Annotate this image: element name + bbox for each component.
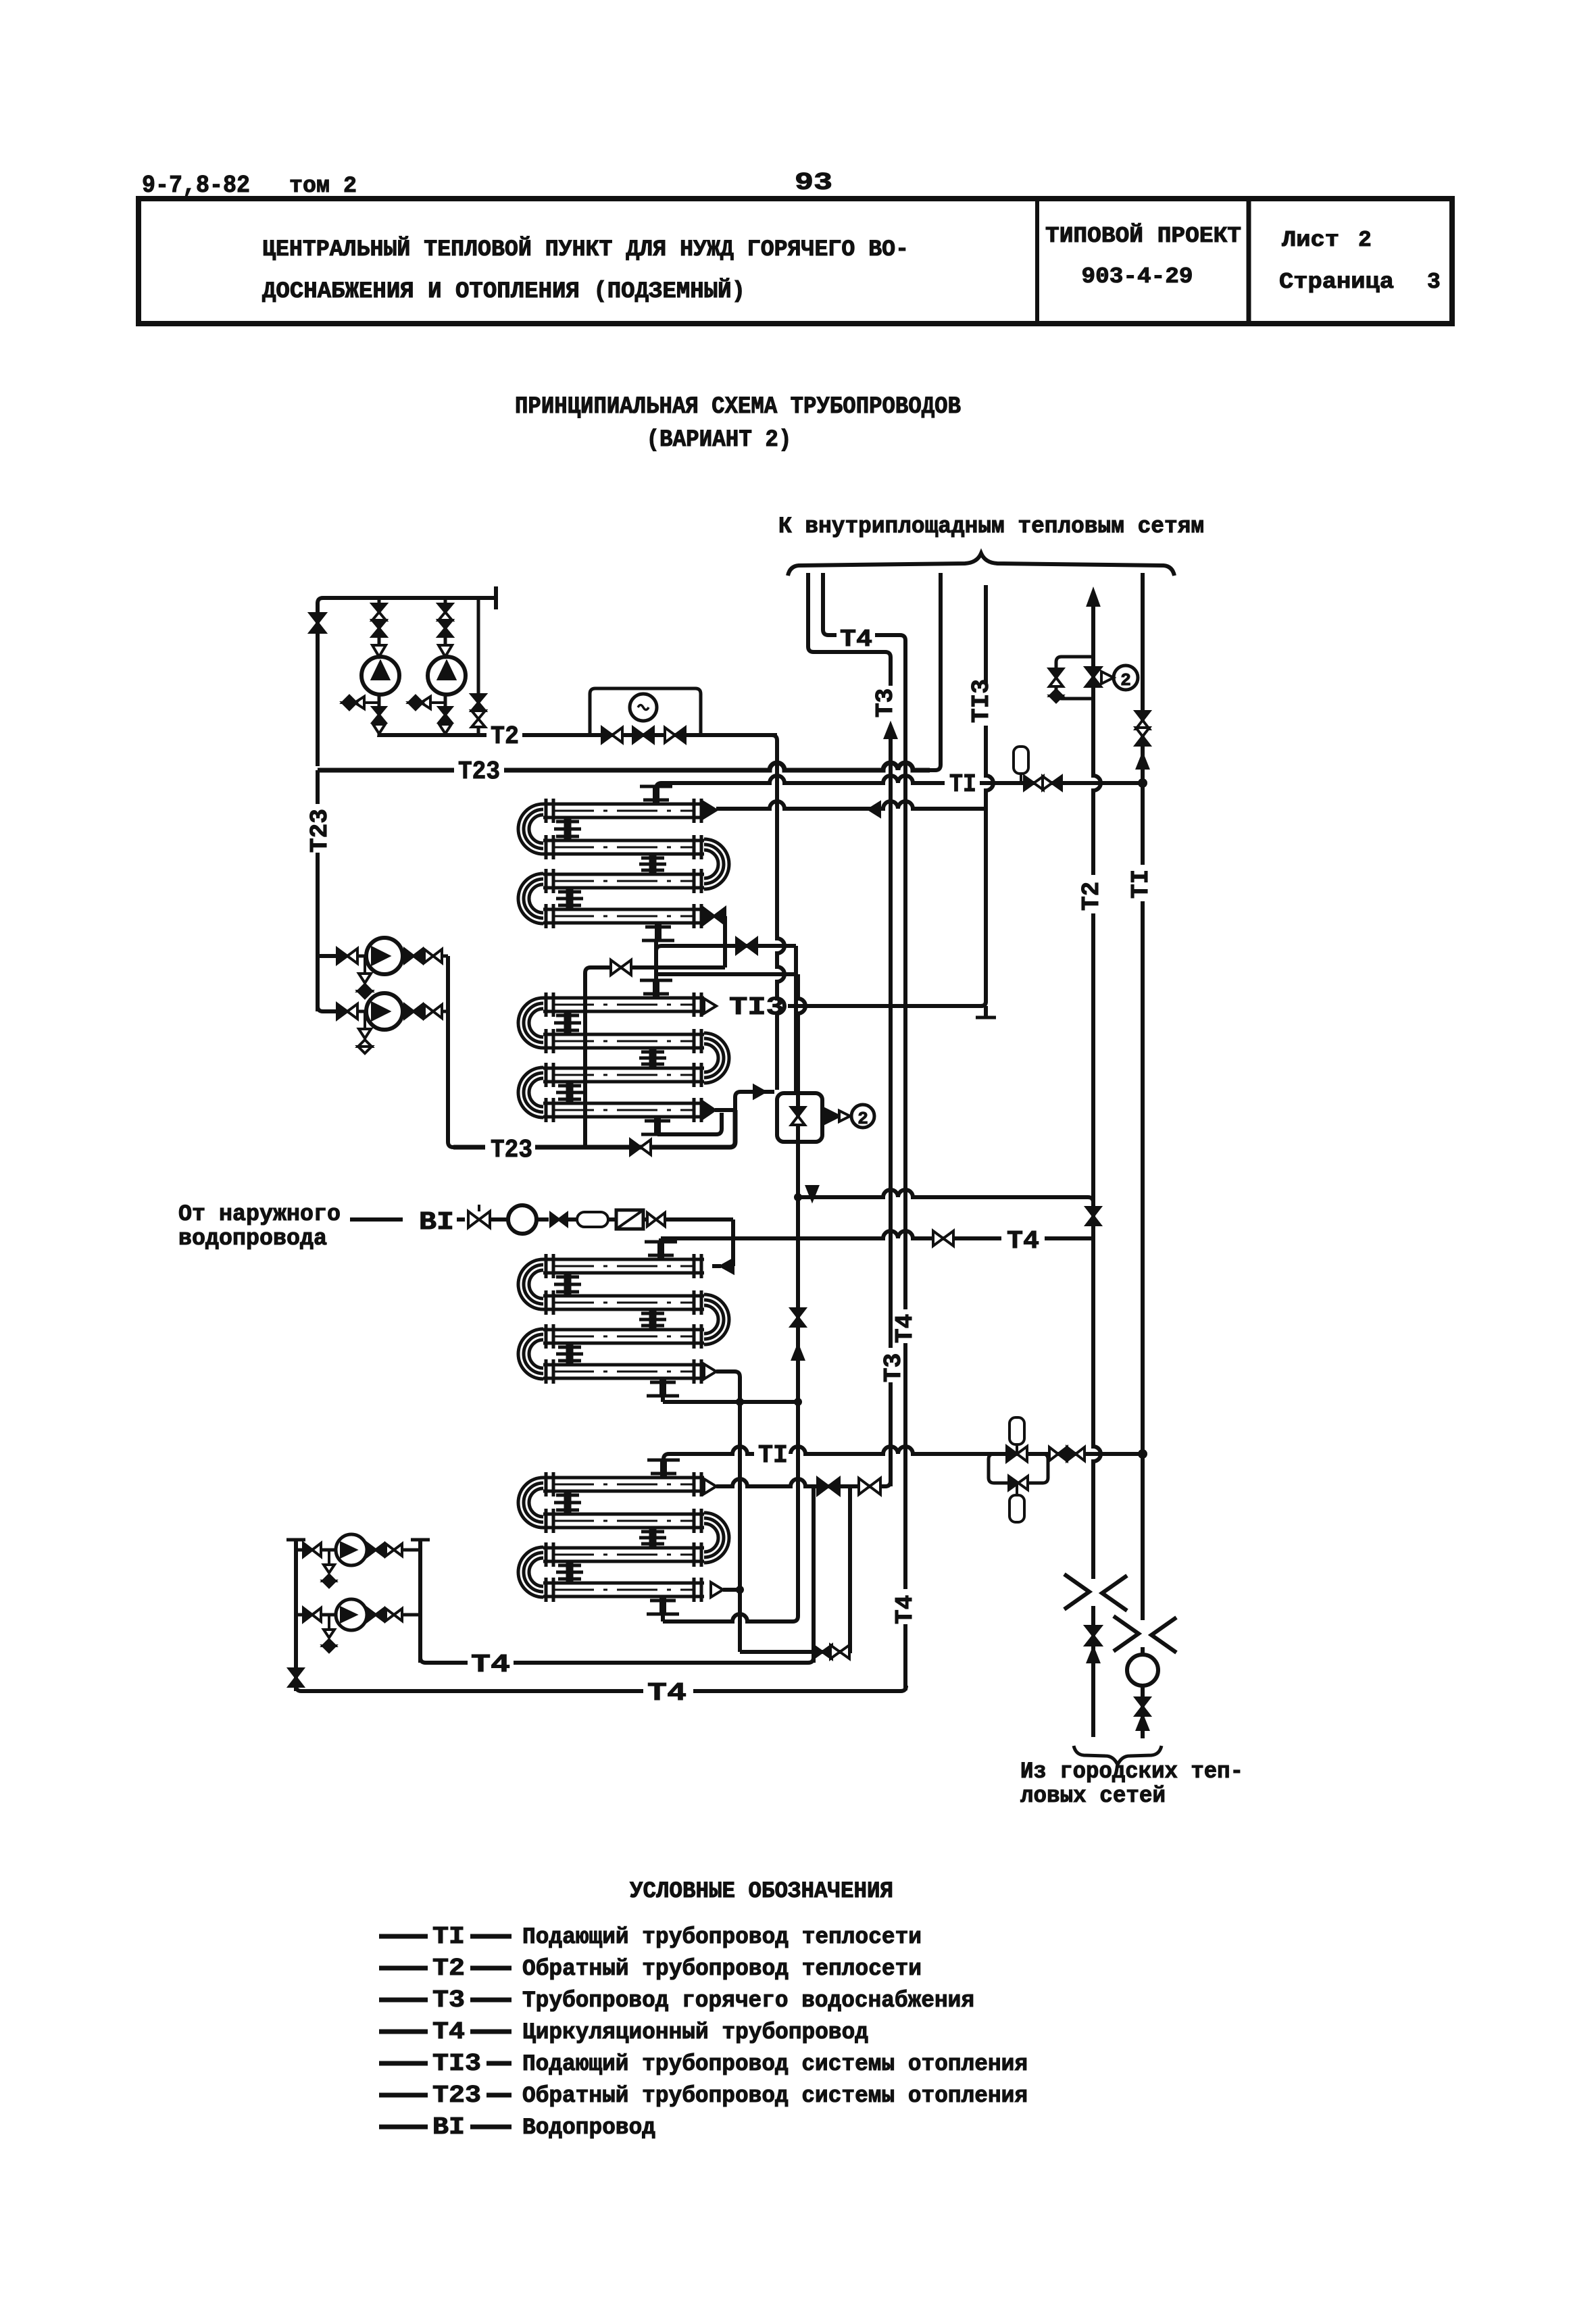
svg-text:Т3: Т3	[872, 688, 899, 718]
svg-text:Обратный трубопровод системы о: Обратный трубопровод системы отопления	[522, 2084, 1028, 2109]
svg-text:Т4: Т4	[432, 2018, 465, 2046]
svg-text:Т23: Т23	[491, 1136, 532, 1165]
svg-text:ТI: ТI	[949, 770, 976, 799]
svg-text:Т23: Т23	[458, 757, 500, 786]
svg-text:ДОСНАБЖЕНИЯ И ОТОПЛЕНИЯ (ПОДЗ: ДОСНАБЖЕНИЯ И ОТОПЛЕНИЯ (ПОДЗЕМНЫЙ)	[262, 278, 745, 305]
svg-text:9-7,8-82: 9-7,8-82	[142, 172, 250, 199]
svg-text:ТI: ТI	[1127, 870, 1155, 899]
svg-text:ЦЕНТРАЛЬНЫЙ ТЕПЛОВОЙ ПУНКТ ДЛЯ: ЦЕНТРАЛЬНЫЙ ТЕПЛОВОЙ ПУНКТ ДЛЯ НУЖД ГОРЯ…	[262, 236, 909, 263]
svg-text:ловых сетей: ловых сетей	[1020, 1784, 1166, 1809]
svg-text:ВI: ВI	[419, 1208, 454, 1237]
svg-text:Трубопровод горячего водоснабж: Трубопровод горячего водоснабжения	[522, 1988, 974, 2014]
svg-text:Т4: Т4	[840, 626, 872, 653]
svg-text:Т4: Т4	[471, 1651, 510, 1680]
svg-text:Страница: Страница	[1279, 270, 1394, 295]
svg-text:Подающий трубопровод системы о: Подающий трубопровод системы отопления	[522, 2052, 1028, 2078]
svg-text:ТI: ТI	[432, 1923, 465, 1951]
svg-text:УСЛОВНЫЕ ОБОЗНАЧЕНИЯ: УСЛОВНЫЕ ОБОЗНАЧЕНИЯ	[630, 1879, 893, 1905]
svg-text:Т3: Т3	[880, 1353, 907, 1382]
svg-text:ТI3: ТI3	[968, 679, 995, 723]
svg-text:Из городских теп-: Из городских теп-	[1020, 1759, 1243, 1785]
svg-text:Т2: Т2	[491, 722, 519, 751]
svg-text:Т23: Т23	[432, 2082, 481, 2109]
svg-text:Водопровод: Водопровод	[522, 2115, 655, 2141]
svg-text:(ВАРИАНТ 2): (ВАРИАНТ 2)	[647, 426, 792, 453]
svg-text:903-4-29: 903-4-29	[1082, 264, 1193, 289]
svg-text:том 2: том 2	[289, 174, 357, 199]
svg-text:От наружного: От наружного	[178, 1202, 341, 1228]
svg-text:ТI3: ТI3	[432, 2050, 481, 2078]
svg-text:Т3: Т3	[432, 1986, 465, 2014]
svg-text:Т4: Т4	[891, 1314, 919, 1343]
svg-text:3: 3	[1427, 270, 1441, 295]
svg-text:2: 2	[1358, 228, 1372, 253]
svg-text:Лист: Лист	[1282, 228, 1339, 253]
svg-text:ТI3: ТI3	[729, 993, 784, 1022]
svg-text:ТI: ТI	[758, 1441, 788, 1470]
svg-text:ТИПОВОЙ ПРОЕКТ: ТИПОВОЙ ПРОЕКТ	[1045, 223, 1241, 249]
svg-text:Т2: Т2	[432, 1955, 465, 1982]
svg-text:ПРИНЦИПИАЛЬНАЯ СХЕМА ТРУБОПРОВ: ПРИНЦИПИАЛЬНАЯ СХЕМА ТРУБОПРОВОДОВ	[515, 393, 961, 420]
svg-text:Циркуляционный трубопровод: Циркуляционный трубопровод	[522, 2020, 868, 2046]
svg-text:ВI: ВI	[432, 2113, 465, 2141]
svg-text:2: 2	[1120, 670, 1131, 690]
svg-text:2: 2	[857, 1109, 868, 1129]
svg-text:Т4: Т4	[891, 1595, 919, 1624]
svg-text:Т4: Т4	[647, 1679, 687, 1708]
svg-text:Т23: Т23	[306, 809, 334, 853]
svg-text:Обратный трубопровод теплосети: Обратный трубопровод теплосети	[522, 1957, 922, 1982]
svg-text:Подающий трубопровод теплосети: Подающий трубопровод теплосети	[522, 1925, 922, 1951]
svg-text:Т4: Т4	[1007, 1227, 1039, 1256]
svg-text:93: 93	[795, 169, 832, 197]
svg-text:К внутриплощадным тепловым сет: К внутриплощадным тепловым сетям	[778, 514, 1204, 540]
svg-text:водопровода: водопровода	[178, 1226, 327, 1252]
svg-text:Т2: Т2	[1078, 882, 1105, 911]
